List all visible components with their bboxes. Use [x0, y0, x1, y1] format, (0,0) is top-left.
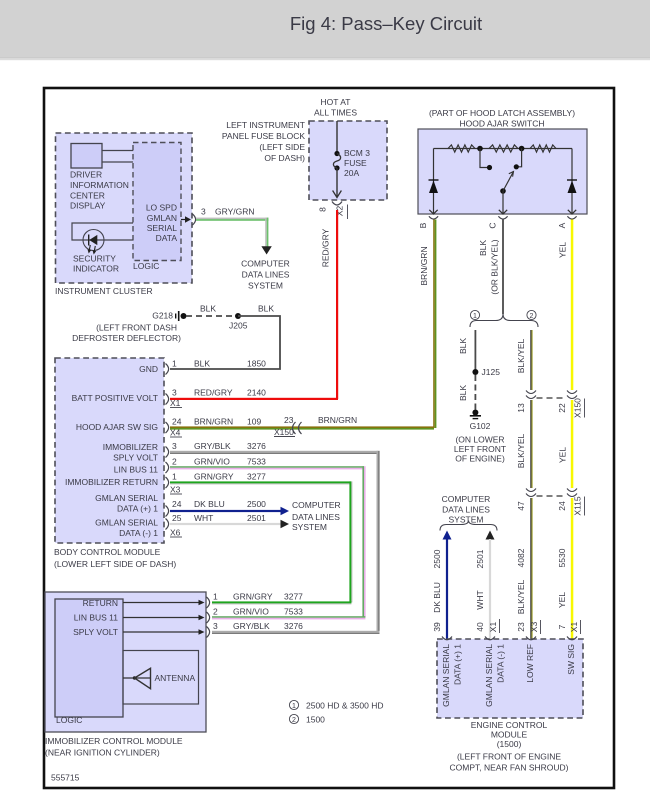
computer data lines system label (BCM): [292, 500, 341, 532]
svg-text:BLK: BLK: [258, 304, 274, 314]
svg-text:CENTER: CENTER: [70, 190, 105, 200]
svg-text:GMLAN SERIAL: GMLAN SERIAL: [95, 518, 158, 528]
svg-text:LEFT INSTRUMENT: LEFT INSTRUMENT: [226, 120, 305, 130]
svg-text:ENGINE CONTROL: ENGINE CONTROL: [471, 720, 548, 730]
wire GRN/VIO BCM to immobilizer: [170, 466, 366, 617]
BLK (OR BLK/YEL) rotated labels: [478, 239, 500, 294]
svg-text:1: 1: [292, 703, 296, 710]
svg-text:BRN/GRN: BRN/GRN: [419, 246, 429, 285]
svg-text:HOOD AJAR SW SIG: HOOD AJAR SW SIG: [76, 422, 158, 432]
svg-text:(LEFT FRONT OF ENGINE: (LEFT FRONT OF ENGINE: [457, 752, 561, 762]
svg-text:2: 2: [292, 717, 296, 724]
svg-text:PANEL FUSE BLOCK: PANEL FUSE BLOCK: [222, 131, 305, 141]
svg-text:(LEFT FRONT DASH: (LEFT FRONT DASH: [96, 323, 177, 333]
svg-text:BODY CONTROL MODULE: BODY CONTROL MODULE: [54, 547, 161, 557]
security indicator LED lamp: [83, 230, 104, 255]
wire BLK/YEL X115 to ECM: [530, 498, 532, 639]
svg-text:BRN/GRN: BRN/GRN: [318, 415, 357, 425]
cluster output arrow pin 3: [181, 207, 255, 226]
svg-text:SYSTEM: SYSTEM: [449, 515, 484, 525]
svg-text:J205: J205: [229, 321, 248, 331]
svg-text:YEL: YEL: [558, 242, 568, 258]
wire GRY/GRN from cluster to computer data lines: [196, 218, 269, 247]
wire GRY/BLK BCM to immobilizer: [170, 451, 380, 632]
wire BLK/YEL between X150 and X115: [530, 400, 532, 488]
wire fuse output with arrow: [333, 168, 342, 198]
ground G218: [72, 311, 186, 344]
svg-text:3277: 3277: [284, 592, 303, 602]
svg-text:COMPUTER: COMPUTER: [241, 259, 290, 269]
svg-text:GND: GND: [139, 364, 158, 374]
svg-text:COMPUTER: COMPUTER: [442, 494, 491, 504]
wire YEL between X150 and X115: [571, 400, 574, 488]
svg-text:BRN/GRN: BRN/GRN: [194, 417, 233, 427]
immobilizer pin row labels: [213, 592, 303, 632]
wire RED/GRY from fuse to BCM pin 3: [170, 210, 338, 400]
svg-text:3: 3: [213, 621, 218, 631]
svg-text:109: 109: [247, 417, 261, 427]
svg-text:G218: G218: [152, 311, 173, 321]
svg-text:24: 24: [557, 501, 567, 511]
svg-text:47: 47: [516, 501, 526, 511]
body control module box: [54, 358, 176, 569]
immobilizer control module box: [45, 592, 206, 758]
svg-text:GRY/GRN: GRY/GRN: [215, 207, 255, 217]
svg-text:WHT: WHT: [194, 513, 213, 523]
svg-text:YEL: YEL: [557, 592, 567, 608]
svg-text:40: 40: [475, 622, 485, 632]
svg-text:7: 7: [557, 624, 567, 629]
svg-text:ALL TIMES: ALL TIMES: [314, 108, 357, 118]
svg-text:X1: X1: [170, 398, 181, 408]
inline connector X150 on vertical wires: [516, 391, 585, 418]
svg-text:OF ENGINE): OF ENGINE): [455, 454, 505, 464]
svg-text:2: 2: [172, 457, 177, 467]
svg-text:IMMOBILIZER: IMMOBILIZER: [103, 442, 158, 452]
svg-text:IMMOBILIZER CONTROL MODULE: IMMOBILIZER CONTROL MODULE: [45, 736, 183, 746]
inline connector X150 on BRN/GRN: [274, 415, 357, 437]
wire DK BLU up arrow to data lines: [443, 531, 452, 640]
svg-text:2140: 2140: [247, 388, 266, 398]
svg-text:24: 24: [172, 417, 182, 427]
svg-text:LOW REF: LOW REF: [525, 644, 535, 683]
svg-text:C: C: [488, 222, 498, 228]
svg-text:DRIVER: DRIVER: [70, 170, 102, 180]
terminal arrow B: [418, 206, 438, 228]
svg-text:ANTENNA: ANTENNA: [155, 673, 196, 683]
wire WHT to computer data lines: [170, 520, 289, 529]
diode D1 (left): [429, 180, 439, 193]
wire hot feed inside fuse block: [336, 121, 338, 153]
svg-text:SPLY VOLT: SPLY VOLT: [73, 627, 118, 637]
svg-text:2501: 2501: [475, 549, 485, 568]
svg-text:7533: 7533: [247, 457, 266, 467]
connector X4 label (BCM): [170, 428, 182, 438]
svg-text:2500: 2500: [432, 549, 442, 568]
internal wires logic to pins: [123, 600, 205, 635]
svg-text:(PART OF HOOD LATCH ASSEMBLY): (PART OF HOOD LATCH ASSEMBLY): [429, 108, 575, 118]
svg-text:2501: 2501: [247, 513, 266, 523]
svg-text:LIN BUS 11: LIN BUS 11: [74, 613, 119, 623]
wire BLK/YEL branch 2: [530, 330, 532, 390]
connector X2 label: [335, 205, 348, 220]
svg-text:LOGIC: LOGIC: [56, 715, 82, 725]
svg-text:1500: 1500: [306, 715, 325, 725]
junction node right: [514, 146, 525, 170]
svg-text:3: 3: [172, 388, 177, 398]
svg-text:GRN/VIO: GRN/VIO: [194, 457, 230, 467]
wire YEL hood switch A down: [571, 220, 574, 391]
svg-text:GRY/BLK: GRY/BLK: [194, 441, 231, 451]
svg-text:RETURN: RETURN: [83, 598, 118, 608]
split brace: [470, 314, 538, 327]
svg-text:3: 3: [172, 441, 177, 451]
svg-text:4082: 4082: [516, 548, 526, 567]
BCM pin row labels: [172, 359, 266, 524]
hood switch internal top wire: [434, 148, 573, 150]
ground G102: [454, 410, 506, 464]
svg-text:LEFT FRONT: LEFT FRONT: [454, 444, 506, 454]
logic box (immobilizer): [55, 598, 123, 725]
svg-text:HOT AT: HOT AT: [321, 97, 351, 107]
inline connector X115: [516, 489, 585, 516]
svg-text:YEL: YEL: [558, 447, 568, 463]
svg-text:X150: X150: [274, 427, 294, 437]
svg-text:DATA (-) 1: DATA (-) 1: [119, 528, 158, 538]
svg-text:2500 HD & 3500 HD: 2500 HD & 3500 HD: [306, 701, 384, 711]
svg-text:SYSTEM: SYSTEM: [292, 522, 327, 532]
engine control module box: [437, 639, 583, 773]
logic box (cluster): [133, 143, 181, 272]
connector X1 label (BCM): [170, 398, 182, 408]
note circle 2: [527, 310, 536, 320]
svg-text:BLK: BLK: [478, 240, 488, 256]
splice J125: [472, 367, 500, 377]
wire BRN/GRN hood switch B to BCM: [170, 220, 436, 430]
svg-text:DATA LINES: DATA LINES: [292, 512, 340, 522]
svg-text:DK BLU: DK BLU: [194, 499, 225, 509]
svg-text:BLK/YEL: BLK/YEL: [516, 579, 526, 614]
svg-text:GRN/GRY: GRN/GRY: [194, 472, 234, 482]
wire YEL X115 to ECM: [571, 498, 574, 639]
left instrument panel fuse block box: [222, 97, 387, 200]
svg-text:22: 22: [557, 403, 567, 413]
svg-text:24: 24: [172, 499, 182, 509]
wire DIC to logic (upper): [102, 150, 133, 152]
legend note 1: [289, 700, 383, 710]
svg-text:B: B: [418, 222, 428, 228]
driver information center display: [70, 144, 129, 211]
svg-text:DATA (-) 1: DATA (-) 1: [496, 644, 506, 683]
fuse BCM 3 FUSE 20A: [333, 148, 370, 178]
svg-text:3277: 3277: [247, 472, 266, 482]
hood ajar switch box: [418, 108, 587, 214]
wire hood switch left leg: [433, 149, 435, 207]
note circle 1: [470, 310, 479, 320]
legend note 2: [289, 714, 325, 724]
wire BLK hood switch C down to split: [502, 220, 504, 315]
computer data lines system label (cluster): [241, 259, 290, 291]
instrument cluster module box: [55, 133, 192, 296]
svg-text:Fig 4: Pass–Key Circuit: Fig 4: Pass–Key Circuit: [290, 13, 482, 34]
antenna loop: [123, 651, 199, 705]
svg-text:23: 23: [516, 622, 526, 632]
svg-text:8: 8: [318, 207, 328, 212]
connector X1 label (yel): [569, 620, 581, 634]
terminal arrow A: [557, 206, 577, 228]
svg-text:1: 1: [172, 472, 177, 482]
svg-text:DEFROSTER DEFLECTOR): DEFROSTER DEFLECTOR): [72, 333, 181, 343]
wire GRY/BLK immobilizer row: [212, 631, 380, 634]
svg-text:SPLY VOLT: SPLY VOLT: [113, 453, 158, 463]
svg-text:GMLAN SERIAL: GMLAN SERIAL: [441, 644, 451, 707]
svg-text:GRN/GRY: GRN/GRY: [233, 592, 273, 602]
svg-text:BLK: BLK: [458, 385, 468, 401]
svg-text:BLK/YEL: BLK/YEL: [516, 338, 526, 373]
svg-text:X150: X150: [573, 398, 583, 418]
svg-text:MODULE: MODULE: [491, 730, 528, 740]
svg-text:GMLAN: GMLAN: [147, 213, 177, 223]
svg-text:BLK/YEL: BLK/YEL: [516, 433, 526, 468]
svg-text:COMPUTER: COMPUTER: [292, 500, 341, 510]
svg-text:DATA (+) 1: DATA (+) 1: [453, 644, 463, 685]
wire hood switch right leg: [571, 149, 573, 207]
BCM pin arcs: [166, 364, 169, 530]
security indicator loop wires: [72, 223, 133, 274]
svg-text:COMPT, NEAR FAN SHROUD): COMPT, NEAR FAN SHROUD): [449, 763, 568, 773]
svg-text:G102: G102: [470, 421, 491, 431]
svg-text:1: 1: [473, 313, 477, 320]
svg-text:X1: X1: [569, 622, 579, 633]
svg-text:GMLAN SERIAL: GMLAN SERIAL: [484, 644, 494, 707]
svg-text:3276: 3276: [284, 621, 303, 631]
svg-text:GRN/VIO: GRN/VIO: [233, 607, 269, 617]
diagram frame: [44, 88, 614, 788]
resistor R3: [530, 145, 556, 152]
svg-text:RED/GRY: RED/GRY: [194, 388, 233, 398]
svg-text:BATT POSITIVE VOLT: BATT POSITIVE VOLT: [72, 393, 158, 403]
wire BLK dashed J125 to G102: [474, 375, 476, 410]
svg-text:INDICATOR: INDICATOR: [73, 264, 119, 274]
ECM internal rotated labels: [441, 644, 576, 707]
svg-text:1: 1: [172, 359, 177, 369]
svg-text:DATA LINES: DATA LINES: [242, 270, 290, 280]
svg-text:J125: J125: [482, 367, 501, 377]
svg-text:DATA LINES: DATA LINES: [442, 505, 490, 515]
svg-text:X3: X3: [170, 485, 181, 495]
terminal arrow C: [488, 206, 508, 229]
svg-text:25: 25: [172, 513, 182, 523]
svg-text:(LEFT SIDE: (LEFT SIDE: [259, 142, 305, 152]
resistor R2: [489, 145, 518, 152]
svg-text:INSTRUMENT CLUSTER: INSTRUMENT CLUSTER: [55, 286, 153, 296]
svg-text:HOOD AJAR SWITCH: HOOD AJAR SWITCH: [459, 119, 544, 129]
connector X6 label (BCM): [170, 528, 182, 538]
svg-text:X3: X3: [529, 622, 539, 633]
svg-text:3: 3: [201, 207, 206, 217]
wire GRN/GRY immobilizer row: [212, 601, 351, 604]
svg-text:1850: 1850: [247, 359, 266, 369]
svg-text:(LOWER LEFT SIDE OF DASH): (LOWER LEFT SIDE OF DASH): [54, 559, 176, 569]
svg-text:SYSTEM: SYSTEM: [248, 281, 283, 291]
svg-text:555715: 555715: [51, 773, 80, 783]
wire DK BLU to computer data lines: [170, 507, 289, 516]
svg-text:(ON LOWER: (ON LOWER: [455, 435, 504, 445]
svg-text:DISPLAY: DISPLAY: [70, 201, 106, 211]
svg-text:RED/GRY: RED/GRY: [321, 228, 331, 267]
svg-text:GMLAN SERIAL: GMLAN SERIAL: [95, 493, 158, 503]
svg-text:39: 39: [432, 622, 442, 632]
wire WHT up arrow to data lines: [486, 531, 495, 640]
svg-text:LIN BUS 11: LIN BUS 11: [114, 465, 159, 475]
svg-text:X115: X115: [573, 496, 583, 515]
svg-text:DATA: DATA: [156, 233, 178, 243]
svg-text:23: 23: [284, 415, 294, 425]
svg-text:DK BLU: DK BLU: [432, 582, 442, 613]
connector X3 label (BCM): [170, 485, 182, 495]
svg-text:2500: 2500: [247, 499, 266, 509]
svg-text:BLK: BLK: [458, 338, 468, 354]
immobilizer pin arcs: [207, 597, 210, 638]
svg-text:BCM 3: BCM 3: [344, 148, 370, 158]
BCM internal labels: [65, 364, 158, 538]
brace above data line arrows: [440, 521, 497, 531]
svg-text:13: 13: [516, 403, 526, 413]
svg-text:INFORMATION: INFORMATION: [70, 180, 129, 190]
svg-text:X4: X4: [170, 428, 181, 438]
svg-text:IMMOBILIZER RETURN: IMMOBILIZER RETURN: [65, 477, 158, 487]
svg-text:5530: 5530: [557, 548, 567, 567]
svg-text:2: 2: [213, 607, 218, 617]
svg-text:FUSE: FUSE: [344, 158, 367, 168]
svg-text:LO SPD: LO SPD: [146, 203, 177, 213]
svg-text:SECURITY: SECURITY: [73, 254, 116, 264]
svg-text:(OR BLK/YEL): (OR BLK/YEL): [490, 239, 500, 294]
svg-text:SERIAL: SERIAL: [147, 223, 178, 233]
switch lever: [500, 172, 513, 207]
svg-text:DATA (+) 1: DATA (+) 1: [117, 504, 158, 514]
connector X3 label: [529, 620, 541, 634]
svg-text:A: A: [557, 222, 567, 228]
svg-text:3276: 3276: [247, 441, 266, 451]
junction node left: [477, 146, 492, 170]
svg-text:(1500): (1500): [497, 739, 522, 749]
wire BLK J205 to BCM pin 1: [170, 316, 280, 369]
svg-text:WHT: WHT: [475, 590, 485, 609]
svg-text:20A: 20A: [344, 168, 359, 178]
svg-text:OF DASH): OF DASH): [264, 153, 305, 163]
connector X1 label (wht): [488, 619, 500, 633]
wire GRN/VIO immobilizer row: [212, 616, 365, 619]
wire GRN/GRY BCM to immobilizer: [170, 481, 352, 602]
svg-text:X1: X1: [488, 622, 498, 633]
resistor R1: [448, 145, 475, 152]
svg-text:SW SIG: SW SIG: [566, 644, 576, 675]
header bar: [0, 0, 650, 60]
svg-text:7533: 7533: [284, 607, 303, 617]
ECM pin arcs: [442, 637, 577, 640]
computer data lines system label (ECM side): [442, 494, 491, 525]
svg-text:1: 1: [213, 592, 218, 602]
connector arc below fuse block: [332, 202, 342, 206]
svg-text:BLK: BLK: [194, 359, 210, 369]
svg-text:2: 2: [530, 313, 534, 320]
wire BLK branch 1 to J125: [474, 330, 476, 370]
svg-text:X6: X6: [170, 528, 181, 538]
svg-text:(NEAR IGNITION CYLINDER): (NEAR IGNITION CYLINDER): [45, 748, 160, 758]
arrow to computer data lines (cluster): [261, 246, 271, 254]
diode D2 (right): [567, 180, 577, 193]
svg-text:BLK: BLK: [200, 304, 216, 314]
wire BLK dashed G218 to J205: [186, 315, 235, 317]
svg-text:GRY/BLK: GRY/BLK: [233, 621, 270, 631]
svg-text:LOGIC: LOGIC: [133, 261, 159, 271]
wire DIC to logic (lower): [102, 161, 133, 163]
splice J205: [229, 313, 248, 331]
